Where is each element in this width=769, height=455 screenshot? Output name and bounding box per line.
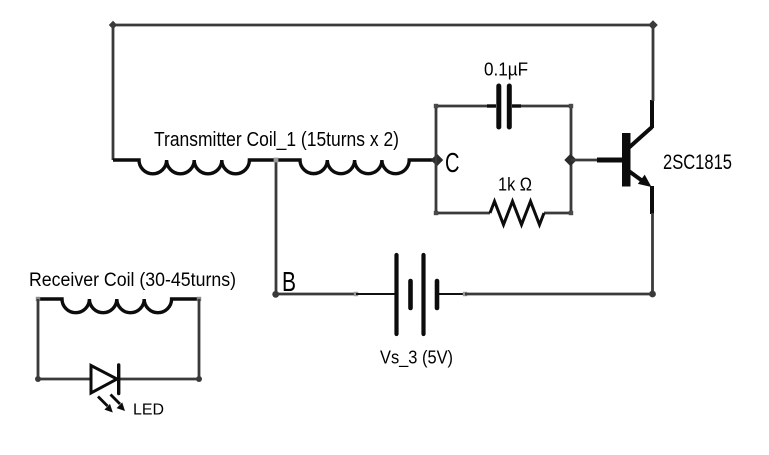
wire base bbox=[571, 159, 598, 162]
transistor Q1 collector lead bbox=[650, 100, 654, 128]
transistor Q1 collector diagonal bbox=[628, 127, 652, 149]
svg-text:2SC1815: 2SC1815 bbox=[663, 151, 732, 174]
node receiver top-right bbox=[197, 297, 201, 301]
node B junction bbox=[272, 291, 279, 298]
battery V1 plate long 2 bbox=[421, 255, 425, 334]
diode D1 LED triangle bbox=[91, 366, 117, 394]
svg-text:0.1µF: 0.1µF bbox=[484, 60, 528, 80]
transistor Q1 emitter lead bbox=[650, 186, 654, 214]
wire receiver bottom-left segment bbox=[38, 378, 90, 381]
wire RC box right bbox=[570, 106, 573, 213]
svg-text:Vs_3 (5V): Vs_3 (5V) bbox=[380, 347, 453, 369]
node base junction bbox=[564, 154, 576, 166]
battery V1 plate long 1 bbox=[394, 255, 398, 334]
wire RC box top-left segment bbox=[436, 105, 489, 108]
node receiver bottom-left bbox=[35, 376, 41, 382]
node RC corner top-left bbox=[434, 104, 438, 108]
wire center tap bbox=[275, 160, 278, 294]
svg-text:B: B bbox=[282, 266, 296, 297]
transistor Q1 emitter diagonal bbox=[628, 171, 646, 184]
wire emitter down bbox=[651, 213, 654, 294]
svg-text:Transmitter Coil_1 (15turns x: Transmitter Coil_1 (15turns x 2) bbox=[154, 128, 399, 151]
diode D1 emission arrow 1 bbox=[98, 397, 108, 407]
wire collector to top rail bbox=[652, 25, 655, 101]
node top-left corner bbox=[109, 21, 117, 29]
node bottom-right corner bbox=[649, 291, 656, 298]
node tap top bbox=[274, 158, 279, 163]
wire receiver right bbox=[198, 299, 201, 379]
transistor Q1 emitter arrow bbox=[638, 175, 652, 187]
transistor Q1 base lead bbox=[597, 158, 622, 163]
diode D1 emission arrow 2 bbox=[111, 395, 121, 405]
resistor R1 zigzag bbox=[490, 201, 544, 224]
node battery lead handle left bbox=[354, 292, 358, 296]
battery V1 plate short 2 bbox=[435, 281, 440, 308]
battery V1 lead left bbox=[356, 293, 395, 295]
inductor L2 receiver coil bbox=[38, 299, 199, 313]
capacitor C1 lead left bbox=[487, 104, 496, 107]
node top-right corner bbox=[648, 20, 658, 30]
wire battery right bbox=[465, 293, 653, 296]
svg-text:1k Ω: 1k Ω bbox=[498, 175, 532, 195]
inductor L1 transmitter coil (two windings) bbox=[113, 160, 436, 174]
node receiver bottom-right bbox=[196, 376, 202, 382]
node receiver top-left bbox=[36, 297, 40, 301]
wire receiver left bbox=[37, 299, 40, 379]
battery V1 plate short 1 bbox=[408, 281, 413, 308]
capacitor C1 lead right bbox=[512, 104, 521, 107]
node C junction bbox=[431, 154, 443, 166]
svg-text:LED: LED bbox=[133, 402, 164, 419]
diode D1 cathode bar bbox=[117, 365, 120, 394]
wire RC box left bbox=[435, 106, 438, 213]
wire RC box bottom-left segment bbox=[436, 212, 490, 215]
node RC corner bottom-right bbox=[569, 211, 573, 215]
transistor Q1 base bar bbox=[622, 133, 631, 187]
node battery lead handle right bbox=[463, 292, 467, 296]
wire RC box top-right segment bbox=[519, 105, 571, 108]
wire top rail bbox=[113, 24, 653, 27]
wire receiver bottom-right segment bbox=[120, 378, 199, 381]
svg-text:C: C bbox=[445, 147, 460, 178]
node RC corner bottom-left bbox=[434, 211, 438, 215]
svg-text:Receiver Coil (30-45turns): Receiver Coil (30-45turns) bbox=[29, 269, 236, 291]
wire battery left bbox=[276, 293, 356, 296]
battery V1 lead right bbox=[438, 293, 465, 295]
capacitor C1 plates bbox=[496, 86, 501, 127]
wire left rail bbox=[112, 25, 115, 160]
wire RC box bottom-right segment bbox=[544, 212, 571, 215]
node RC corner top-right bbox=[569, 104, 573, 108]
